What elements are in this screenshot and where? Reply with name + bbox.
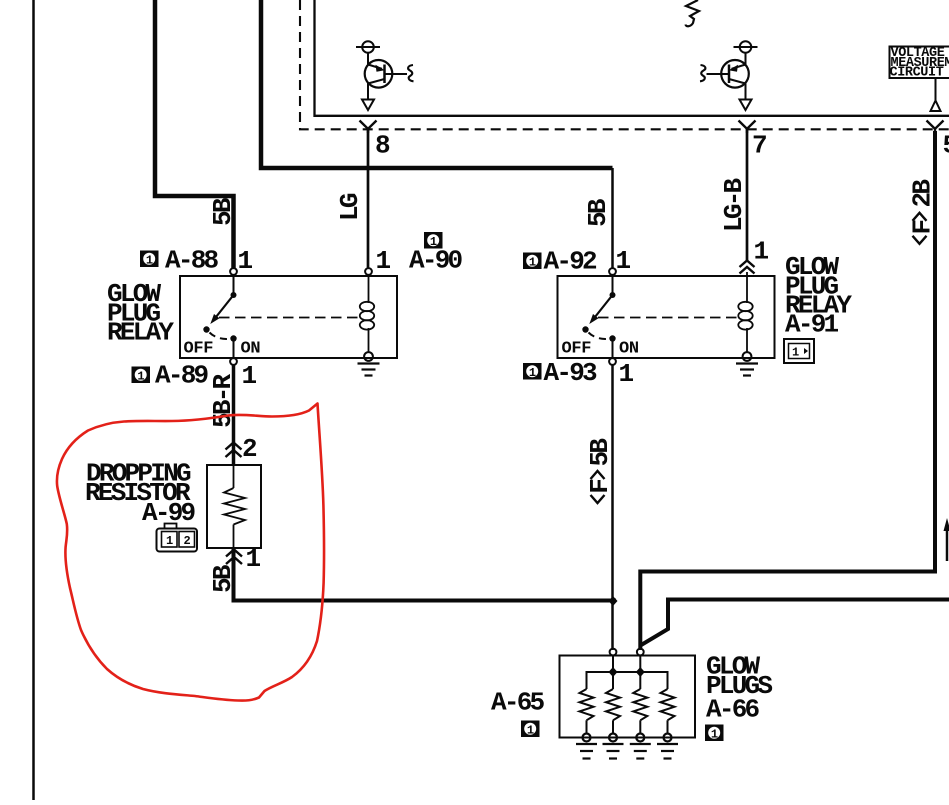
svg-text:1: 1 (166, 534, 173, 548)
svg-text:A-92: A-92 (544, 247, 598, 277)
svg-text:1: 1 (754, 237, 769, 267)
svg-text:1: 1 (616, 246, 631, 276)
svg-text:A-91: A-91 (785, 310, 839, 340)
svg-text:5B: 5B (208, 564, 238, 593)
svg-text:1: 1 (242, 361, 257, 391)
svg-text:2B: 2B (908, 179, 938, 208)
svg-text:1: 1 (246, 544, 261, 574)
svg-text:A-93: A-93 (544, 358, 598, 388)
svg-text:5B: 5B (583, 198, 613, 227)
svg-text:5B: 5B (585, 438, 615, 467)
svg-text:2: 2 (184, 534, 191, 548)
svg-text:5B: 5B (208, 197, 238, 226)
svg-text:A-89: A-89 (155, 361, 209, 391)
svg-text:LG-B: LG-B (719, 177, 749, 232)
svg-text:CIRCUIT: CIRCUIT (890, 66, 944, 81)
svg-text:F: F (585, 479, 615, 494)
svg-text:A-88: A-88 (165, 246, 219, 276)
svg-text:OFF: OFF (184, 340, 214, 359)
svg-text:ON: ON (619, 340, 639, 359)
svg-text:1: 1 (146, 253, 153, 267)
svg-text:OFF: OFF (562, 340, 592, 359)
svg-text:1: 1 (619, 359, 634, 389)
svg-text:LG: LG (335, 193, 365, 221)
svg-text:A-66: A-66 (706, 695, 760, 725)
svg-text:2: 2 (242, 434, 257, 464)
svg-text:1: 1 (238, 246, 253, 276)
svg-text:1: 1 (376, 246, 391, 276)
svg-text:7: 7 (752, 131, 766, 161)
svg-text:8: 8 (375, 131, 390, 161)
svg-text:F: F (908, 220, 938, 235)
svg-text:A-65: A-65 (491, 688, 545, 718)
svg-text:5B-R: 5B-R (208, 373, 238, 428)
svg-text:A-90: A-90 (409, 246, 463, 276)
svg-text:1: 1 (792, 346, 799, 360)
svg-text:ON: ON (241, 340, 261, 359)
svg-text:5: 5 (943, 131, 949, 161)
svg-text:RELAY: RELAY (107, 318, 174, 348)
